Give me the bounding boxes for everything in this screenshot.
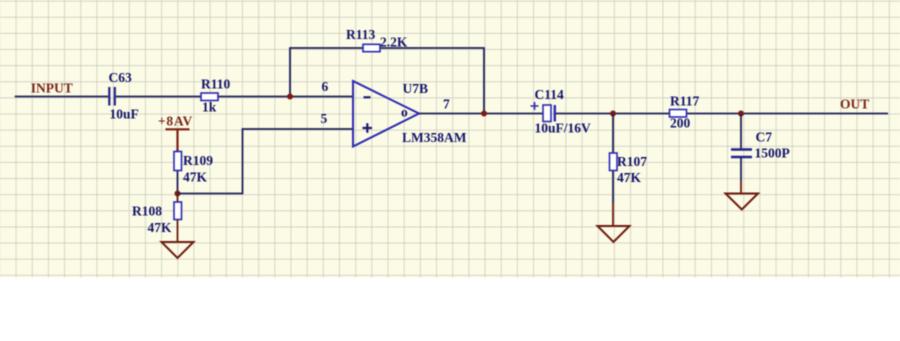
- svg-text:47K: 47K: [148, 220, 173, 235]
- svg-text:10uF/16V: 10uF/16V: [535, 121, 592, 136]
- svg-text:6: 6: [322, 79, 329, 94]
- ground for C7: [726, 194, 759, 210]
- wire node E to C7: [740, 114, 742, 149]
- svg-text:10uF: 10uF: [110, 107, 139, 122]
- wire ground stub C7: [740, 181, 742, 194]
- node B junction: [175, 191, 181, 197]
- svg-text:2.2K: 2.2K: [380, 35, 408, 50]
- wire node B to op-amp pin 5: [178, 129, 354, 194]
- svg-text:1500P: 1500P: [755, 146, 790, 161]
- wire +8AV to node B: [177, 150, 179, 194]
- capacitor C63: [109, 70, 139, 122]
- svg-text:1k: 1k: [202, 100, 217, 115]
- svg-text:o: o: [401, 105, 408, 120]
- svg-text:5: 5: [321, 111, 328, 126]
- resistor R108: [132, 202, 182, 235]
- svg-text:OUT: OUT: [840, 97, 869, 112]
- resistor R109: [174, 152, 213, 185]
- resistor R107: [610, 153, 648, 185]
- wire op-amp output: [419, 113, 888, 115]
- wire C63 to op-amp pin 6: [116, 96, 353, 98]
- wire feedback loop: [290, 48, 484, 114]
- svg-text:C7: C7: [756, 130, 773, 145]
- svg-text:R113: R113: [346, 27, 376, 42]
- svg-text:R108: R108: [132, 204, 162, 219]
- capacitor C114: [531, 87, 592, 136]
- resistor R113: [346, 27, 408, 52]
- svg-text:C63: C63: [109, 70, 132, 85]
- resistor R110: [201, 77, 231, 115]
- svg-text:200: 200: [670, 116, 691, 131]
- op-amp U7B: [353, 81, 467, 147]
- capacitor C7: [731, 130, 790, 161]
- svg-text:+8AV: +8AV: [158, 113, 193, 128]
- wire input to C63: [15, 96, 109, 98]
- node E junction: [738, 111, 744, 117]
- wire node D to R107: [612, 114, 614, 204]
- resistor R117: [670, 93, 700, 130]
- ground for R107: [598, 226, 630, 242]
- svg-text:47K: 47K: [183, 170, 208, 185]
- power +8AV: [158, 113, 193, 151]
- wire C7 to ground: [740, 158, 742, 181]
- svg-text:R117: R117: [670, 93, 700, 108]
- node C junction: [481, 111, 487, 117]
- node D junction: [610, 111, 616, 117]
- svg-text:R110: R110: [201, 77, 231, 92]
- svg-text:R109: R109: [183, 153, 213, 168]
- svg-text:U7B: U7B: [403, 81, 429, 96]
- wire node B to ground: [177, 194, 179, 243]
- svg-text:INPUT: INPUT: [31, 81, 73, 96]
- svg-text:R107: R107: [617, 154, 647, 169]
- wire R107 to ground (stub): [612, 203, 614, 226]
- node A junction: [287, 94, 293, 100]
- svg-text:C114: C114: [535, 87, 565, 102]
- svg-text:7: 7: [443, 97, 450, 112]
- svg-text:LM358AM: LM358AM: [402, 130, 467, 145]
- ground for R108: [162, 242, 194, 258]
- svg-text:47K: 47K: [617, 170, 642, 185]
